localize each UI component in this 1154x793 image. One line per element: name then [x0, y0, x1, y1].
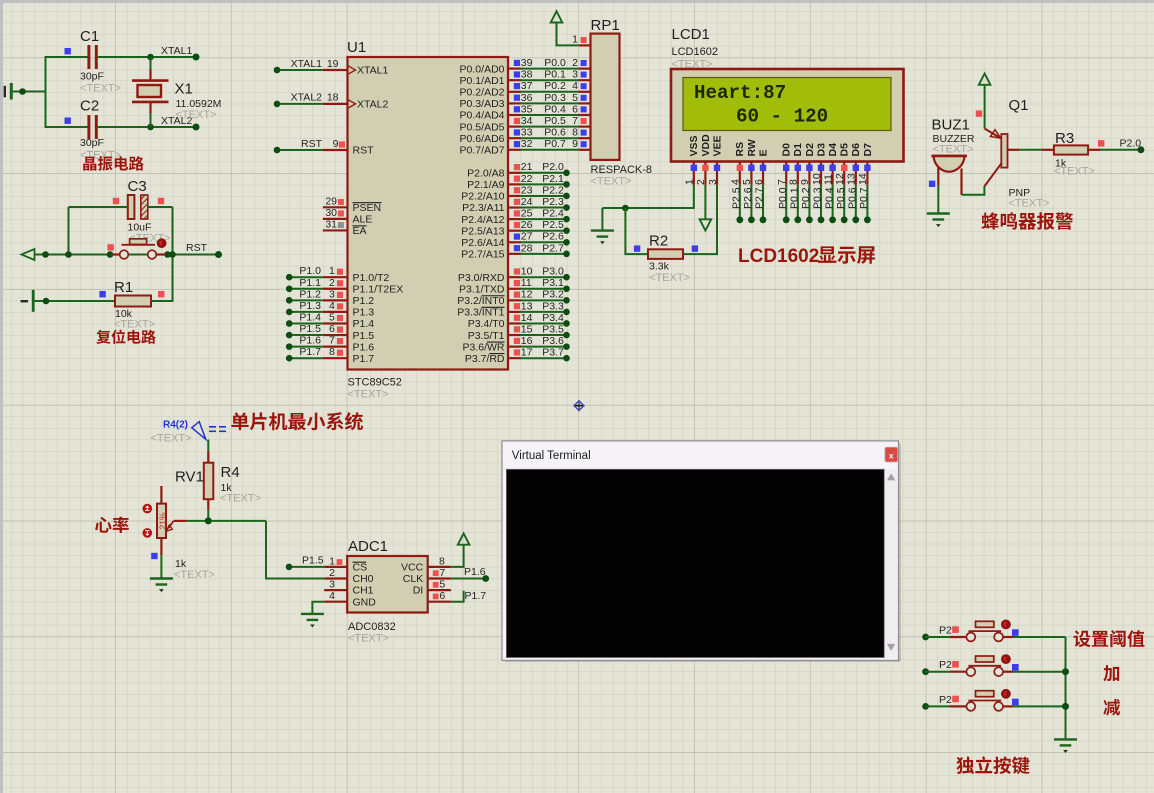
svg-text:D7: D7 — [862, 143, 874, 157]
svg-text:60 - 120: 60 - 120 — [736, 105, 828, 127]
svg-text:P0.5: P0.5 — [835, 187, 847, 209]
pot RV1 interactive down button — [143, 528, 153, 538]
svg-text:10: 10 — [521, 266, 533, 278]
svg-text:R3: R3 — [1055, 130, 1074, 147]
svg-text:P3.3: P3.3 — [542, 300, 564, 312]
state square R1 right (red) — [158, 291, 164, 297]
caption 晶振电路 — [83, 156, 144, 171]
svg-text:P1.0: P1.0 — [299, 265, 321, 277]
pot RV1 body — [160, 486, 162, 504]
U1 pin P0.0/AD0 (39) wire P0.0 to RP1 pin 2 — [460, 57, 591, 75]
svg-text:5: 5 — [572, 92, 578, 104]
svg-text:P3.0/RXD: P3.0/RXD — [458, 272, 505, 284]
svg-text:Virtual Terminal: Virtual Terminal — [512, 450, 591, 462]
svg-text:XTAL2: XTAL2 — [357, 99, 388, 111]
svg-text:4: 4 — [329, 300, 335, 312]
U1 pin P3.3/INT1 (13) wire P3.3 with node — [457, 300, 570, 318]
svg-text:DI: DI — [413, 585, 424, 597]
caption 心率 — [95, 517, 129, 534]
wire vertical C3-left down to RST row — [68, 207, 70, 255]
svg-text:P0.5: P0.5 — [544, 115, 566, 127]
U1 pin P3.6/WR (16) wire P3.6 with node — [462, 335, 569, 353]
svg-text:<TEXT>: <TEXT> — [348, 633, 389, 645]
ground (ADC) — [301, 614, 324, 620]
svg-text:22: 22 — [521, 173, 533, 185]
svg-text:PSEN: PSEN — [353, 202, 382, 214]
U1 pin P2.6/A14 (27) wire P2.6 with node — [461, 231, 570, 249]
wire LCD pin D3 net P0.3 with node — [812, 185, 825, 223]
svg-text:7: 7 — [329, 335, 335, 347]
svg-text:<TEXT>: <TEXT> — [649, 272, 690, 284]
svg-text:P1.7: P1.7 — [299, 346, 321, 358]
svg-text:P0.2/AD2: P0.2/AD2 — [460, 87, 505, 99]
lcd screen — [683, 78, 891, 131]
svg-text:P0.2: P0.2 — [544, 80, 566, 92]
svg-text:13: 13 — [846, 173, 858, 185]
svg-text:P0.6: P0.6 — [544, 127, 566, 139]
node junction RST row b — [65, 251, 72, 258]
virtual terminal close button — [885, 447, 898, 462]
wire LCD VDD to power-down arrow — [704, 185, 706, 220]
node junction RST row d (button right) — [164, 251, 171, 258]
capacitor C2 — [89, 115, 96, 139]
svg-text:5: 5 — [329, 311, 335, 323]
U1 pin P0.3/AD3 (36) wire P0.3 to RP1 pin 5 — [460, 92, 591, 110]
wire LCD pin D2 net P0.2 with node — [800, 185, 813, 223]
svg-text:RV1: RV1 — [175, 469, 204, 486]
U1 pin P2.3/A11 (24) wire P2.3 with node — [462, 196, 570, 214]
svg-text:26: 26 — [521, 219, 533, 231]
svg-text:7: 7 — [572, 115, 578, 127]
svg-text:P0.7/AD7: P0.7/AD7 — [460, 145, 505, 157]
U1 pin P1.2 (3) with wire and node P1.2 — [286, 288, 374, 307]
svg-text:X1: X1 — [175, 81, 193, 98]
node RST terminal — [215, 251, 222, 258]
node junction R1 left — [43, 298, 50, 305]
svg-text:3.3k: 3.3k — [649, 261, 670, 273]
svg-text:32: 32 — [521, 138, 533, 150]
svg-text:37: 37 — [521, 80, 533, 92]
LCD pin D1 (8) stub and label — [788, 143, 805, 185]
svg-text:P3.7: P3.7 — [542, 347, 564, 359]
U1 pin P1.3 (4) with wire and node P1.3 — [286, 300, 374, 319]
ADC pin GND (4) wire to ground — [312, 590, 376, 614]
svg-text:P0.7: P0.7 — [544, 138, 566, 150]
push button (reset) — [111, 253, 120, 255]
ADC pin CH1 (3) stub — [324, 579, 373, 597]
svg-text:RS: RS — [734, 142, 746, 157]
Q1 base wire to R3 — [1008, 149, 1020, 151]
svg-text:P2.7: P2.7 — [754, 187, 766, 209]
svg-text:<TEXT>: <TEXT> — [933, 144, 974, 156]
svg-text:P3.1/TXD: P3.1/TXD — [459, 283, 505, 295]
svg-text:D6: D6 — [850, 143, 862, 157]
svg-text:P3.1: P3.1 — [542, 277, 564, 289]
U1 pin P0.6/AD6 (33) wire P0.6 to RP1 pin 8 — [460, 127, 591, 145]
svg-text:25: 25 — [521, 208, 533, 220]
svg-text:6: 6 — [329, 323, 335, 335]
ADC pin CLK (7) wire with node P1.6 — [403, 566, 489, 585]
svg-text:24: 24 — [521, 196, 533, 208]
svg-text:R2: R2 — [649, 233, 668, 250]
wire C2 to XTAL2 node — [98, 126, 196, 128]
wire LCD VSS to ground rail — [602, 185, 693, 208]
svg-text:P0.1/AD1: P0.1/AD1 — [460, 75, 505, 87]
wire VEE rail to R2 right — [625, 208, 648, 254]
adc ADC1 body — [347, 556, 428, 613]
svg-text:CH1: CH1 — [353, 585, 374, 597]
wire VCC to RP1 pin 1 — [557, 23, 579, 46]
caption 设置阈值 — [1074, 630, 1145, 647]
U1 pin ALE (30) — [323, 207, 373, 226]
svg-text:P2.2/A10: P2.2/A10 — [461, 191, 504, 203]
LCD pin D3 (10) stub and label — [811, 143, 828, 185]
U1 pin P0.5/AD5 (34) wire P0.5 to RP1 pin 7 — [460, 115, 591, 133]
svg-text:XTAL2: XTAL2 — [291, 92, 322, 104]
svg-text:4: 4 — [572, 80, 578, 92]
svg-text:39: 39 — [521, 57, 533, 69]
svg-text:U1: U1 — [347, 39, 366, 56]
svg-text:<TEXT>: <TEXT> — [176, 109, 217, 121]
push button K4 row (net P2.4) — [922, 654, 1065, 676]
wire LCD pin D6 net P0.6 with node — [847, 185, 860, 223]
node junction R4/wiper — [205, 517, 212, 524]
svg-text:P2.6/A14: P2.6/A14 — [461, 237, 504, 249]
U1 pin P1.1 (2) with wire and node P1.1 — [286, 277, 403, 296]
pot RV1 wiper arrow — [168, 521, 174, 529]
svg-text:R1: R1 — [114, 279, 133, 296]
state square button left (red) — [107, 244, 113, 250]
svg-text:15: 15 — [521, 323, 533, 335]
wire LCD pin D0 net P0.0 with node — [777, 185, 790, 223]
svg-text:P1.5: P1.5 — [353, 330, 375, 342]
svg-text:VEE: VEE — [711, 135, 723, 156]
voltage probe R4(2) — [192, 422, 206, 440]
svg-text:P2.1: P2.1 — [542, 173, 564, 185]
state square RP1 pin1 (red) — [581, 37, 587, 43]
LCD pin D0 (7) stub and label — [776, 143, 793, 185]
svg-text:P3.4/T0: P3.4/T0 — [468, 318, 505, 330]
svg-text:LCD1: LCD1 — [672, 26, 710, 43]
svg-text:RESPACK-8: RESPACK-8 — [591, 164, 653, 176]
wire R1 right to vertical — [151, 300, 174, 302]
node junction VSS rail — [622, 205, 629, 212]
U1 pin P1.7 (8) with wire and node P1.7 — [286, 346, 374, 365]
wire RST row main — [35, 254, 219, 256]
svg-text:2: 2 — [695, 179, 707, 185]
wire R2 right to VEE column — [683, 185, 717, 254]
state square Q1 emitter (red) — [976, 110, 982, 116]
svg-text:P1.5: P1.5 — [302, 554, 324, 566]
svg-text:VDD: VDD — [700, 134, 712, 157]
wire C3 left to corner — [69, 206, 128, 208]
state square R2 left (blue) — [634, 245, 640, 251]
svg-text:P2.4: P2.4 — [542, 208, 564, 220]
svg-text:8: 8 — [329, 346, 335, 358]
node junction button row 2 — [1062, 668, 1069, 675]
U1 pin P1.5 (6) with wire and node P1.5 — [286, 323, 374, 342]
svg-text:P3.6: P3.6 — [542, 335, 564, 347]
state square buzzer left (blue) — [929, 181, 935, 187]
power symbol (VCC arrow) above RP1 — [551, 11, 563, 22]
svg-text:1: 1 — [572, 34, 578, 46]
svg-text:P2.6: P2.6 — [742, 187, 754, 209]
svg-text:P3.0: P3.0 — [542, 266, 564, 278]
svg-text:6: 6 — [439, 590, 445, 602]
svg-text:<TEXT>: <TEXT> — [114, 319, 155, 331]
LCD pin VSS (1) stub and label — [684, 135, 701, 185]
U1 pin P2.2/A10 (23) wire P2.2 with node — [461, 184, 570, 202]
ground (buttons) — [1054, 739, 1077, 745]
svg-text:ADC0832: ADC0832 — [348, 621, 396, 633]
buzzer left pin to ground — [937, 168, 939, 186]
U1 pin PSEN (29) — [323, 196, 382, 215]
U1 pin P2.5/A13 (26) wire P2.5 with node — [461, 219, 570, 237]
resistor R1 — [115, 296, 151, 307]
svg-text:19: 19 — [327, 58, 339, 70]
U1 pin XTAL1 (19) with wire and node — [274, 58, 389, 77]
svg-text:P0.3: P0.3 — [812, 187, 824, 209]
node junction RST row a — [42, 251, 49, 258]
respack RP1 body — [591, 34, 620, 160]
svg-text:P2.7/A15: P2.7/A15 — [461, 249, 504, 261]
application window top edge — [0, 0, 1154, 3]
svg-text:RW: RW — [746, 139, 758, 156]
wire VCC to Q1 emitter — [984, 85, 986, 129]
input terminal (left edge, XTAL net) — [4, 86, 6, 98]
svg-text:34: 34 — [521, 115, 533, 127]
wire terminal to R1 — [35, 300, 115, 302]
svg-text:P2.6: P2.6 — [542, 231, 564, 243]
svg-text:D4: D4 — [827, 143, 839, 157]
svg-text:P2.0: P2.0 — [542, 161, 564, 173]
virtual terminal screen (black) — [506, 469, 884, 657]
svg-text:CS: CS — [353, 562, 368, 574]
node XTAL2 terminal — [193, 124, 200, 131]
wire LCD pin RW net P2.6 with node — [742, 185, 755, 223]
svg-text:GND: GND — [353, 596, 377, 608]
svg-text:D1: D1 — [792, 143, 804, 157]
svg-text:38: 38 — [521, 69, 533, 81]
ground terminal (left edge, R1 row) — [21, 300, 29, 302]
svg-text:P2: P2 — [939, 625, 952, 637]
svg-text:P2.0/A8: P2.0/A8 — [467, 168, 505, 180]
svg-text:P3.4: P3.4 — [542, 312, 564, 324]
wire LCD pin D4 net P0.4 with node — [823, 185, 836, 223]
svg-text:P1.2: P1.2 — [299, 288, 321, 300]
LCD pin VDD (2) stub and label — [695, 134, 712, 185]
push button K5 row (net P2.5) — [922, 689, 1065, 711]
svg-text:27: 27 — [521, 231, 533, 243]
svg-text:P2.1/A9: P2.1/A9 — [467, 179, 505, 191]
svg-text:6: 6 — [753, 179, 765, 185]
svg-text:C2: C2 — [80, 98, 99, 115]
svg-text:RST: RST — [186, 242, 208, 254]
node junction button row 3 — [1062, 703, 1069, 710]
wire R4 bottom to junction — [207, 510, 209, 521]
pot RV1 bottom to ground — [160, 555, 162, 578]
svg-text:36: 36 — [521, 92, 533, 104]
svg-text:P0.0/AD0: P0.0/AD0 — [460, 63, 505, 75]
svg-text:7: 7 — [776, 179, 788, 185]
ADC pin CH0 (2) — [324, 567, 373, 585]
svg-text:11: 11 — [822, 174, 834, 185]
svg-text:P1.6: P1.6 — [464, 566, 486, 578]
resistor R2 — [648, 249, 683, 259]
svg-text:17: 17 — [521, 347, 533, 359]
U1 pin RST (9) with wire and node — [274, 138, 374, 157]
pot RV1 interactive up button — [143, 504, 153, 514]
svg-text:23: 23 — [521, 184, 533, 196]
svg-text:BUZ1: BUZ1 — [932, 117, 970, 134]
svg-text:D0: D0 — [781, 143, 793, 157]
svg-text:P1.4: P1.4 — [353, 318, 375, 330]
caption 蜂鸣器报警 — [982, 212, 1074, 229]
svg-text:<TEXT>: <TEXT> — [174, 569, 215, 581]
svg-text:33: 33 — [521, 127, 533, 139]
svg-text:12: 12 — [521, 289, 533, 301]
svg-text:D3: D3 — [815, 143, 827, 157]
svg-text:3: 3 — [329, 579, 335, 591]
LCD pin RS (4) stub and label — [730, 142, 747, 185]
svg-text:P0.3: P0.3 — [544, 92, 566, 104]
svg-text:RST: RST — [301, 138, 323, 150]
node junction RST row c (button left) — [107, 251, 114, 258]
svg-text:P1.7: P1.7 — [353, 353, 375, 365]
svg-text:EA: EA — [353, 225, 367, 237]
svg-text:P0.4: P0.4 — [544, 103, 566, 115]
U1 pin P3.7/RD (17) wire P3.7 with node — [465, 347, 570, 365]
svg-text:<TEXT>: <TEXT> — [151, 433, 192, 445]
svg-text:P3.2/INT0: P3.2/INT0 — [457, 295, 504, 307]
LCD pin D7 (14) stub and label — [857, 143, 874, 185]
origin marker (sheet centre) — [574, 401, 585, 411]
svg-text:8: 8 — [439, 555, 445, 567]
svg-text:P0.6: P0.6 — [847, 187, 859, 209]
power symbol (VCC arrow) above Q1 — [979, 74, 991, 85]
svg-text:P2.4/A12: P2.4/A12 — [461, 214, 504, 226]
svg-text:C3: C3 — [128, 178, 147, 195]
wire LCD pin RS net P2.5 with node — [731, 185, 744, 223]
transistor Q1 (PNP) body — [1001, 134, 1007, 168]
svg-text:D2: D2 — [804, 143, 816, 157]
svg-text:XTAL1: XTAL1 — [161, 45, 192, 57]
svg-text:P0.7: P0.7 — [858, 187, 870, 209]
svg-text:30: 30 — [325, 207, 337, 219]
ADC pin VCC (8) wire to power arrow — [401, 545, 464, 574]
U1 pin P2.4/A12 (25) wire P2.4 with node — [461, 208, 570, 226]
wire vertical C3-right down through RST row to R1 row — [172, 207, 174, 301]
svg-text:P2.5: P2.5 — [542, 219, 564, 231]
svg-text:3: 3 — [707, 179, 719, 185]
U1 pin P0.4/AD4 (35) wire P0.4 to RP1 pin 6 — [460, 103, 591, 121]
svg-text:P0.1: P0.1 — [544, 69, 566, 81]
U1 pin EA (31) — [323, 219, 367, 238]
wire C3 right to corner — [148, 206, 173, 208]
U1 pin P3.5/T1 (15) wire P3.5 with node — [468, 323, 570, 341]
svg-text:P1.2: P1.2 — [353, 295, 375, 307]
capacitor C3 (electrolytic) — [128, 195, 135, 219]
capacitor C1 — [89, 45, 96, 69]
svg-text:LCD1602: LCD1602 — [738, 246, 819, 267]
svg-text:9: 9 — [572, 138, 578, 150]
svg-text:2: 2 — [329, 277, 335, 289]
RP1 pin 1 stub — [579, 44, 591, 46]
svg-text:P2.5: P2.5 — [731, 187, 743, 209]
svg-text:4: 4 — [730, 179, 742, 185]
svg-text:P2: P2 — [939, 659, 952, 671]
svg-text:1: 1 — [329, 555, 335, 567]
U1 pin XTAL2 (18) with wire and node — [274, 92, 389, 111]
svg-text:4: 4 — [329, 590, 335, 602]
svg-text:28: 28 — [521, 242, 533, 254]
svg-text:VCC: VCC — [401, 562, 424, 574]
node junction on input wire — [19, 88, 26, 95]
LCD pin VEE (3) stub and label — [707, 135, 724, 185]
ADC pin DO (6) wire net P1.7 — [428, 590, 487, 602]
svg-text:P1.7: P1.7 — [465, 590, 487, 602]
svg-text:P1.3: P1.3 — [353, 307, 375, 319]
svg-text:P0.2: P0.2 — [800, 187, 812, 209]
U1 pin P3.4/T0 (14) wire P3.4 with node — [468, 312, 570, 330]
U1 pin P2.7/A15 (28) wire P2.7 with node — [461, 242, 570, 260]
svg-text:E: E — [757, 149, 769, 156]
svg-text:XTAL1: XTAL1 — [357, 65, 388, 77]
node P2.0 terminal — [1137, 146, 1144, 153]
svg-text:29: 29 — [325, 196, 337, 208]
U1 pin P3.2/INT0 (12) wire P3.2 with node — [457, 289, 570, 307]
svg-text:P2.7: P2.7 — [542, 242, 564, 254]
U1 pin P1.6 (7) with wire and node P1.6 — [286, 335, 374, 354]
wire probe to R4 top — [207, 440, 209, 452]
svg-text:14: 14 — [857, 173, 869, 185]
svg-text:2: 2 — [572, 57, 578, 69]
bus entry arrow (left, RST row) — [22, 249, 35, 260]
ADC pin DI (5) stub — [413, 579, 451, 597]
svg-text:<TEXT>: <TEXT> — [348, 389, 389, 401]
U1 pin P0.7/AD7 (32) wire P0.7 to RP1 pin 9 — [460, 138, 591, 156]
svg-text:P0.3/AD3: P0.3/AD3 — [460, 98, 505, 110]
U1 pin P0.2/AD2 (37) wire P0.2 to RP1 pin 4 — [460, 80, 591, 98]
svg-text:RST: RST — [353, 145, 375, 157]
svg-text:21: 21 — [521, 161, 533, 173]
svg-text:5: 5 — [439, 579, 445, 591]
svg-text:18: 18 — [327, 92, 339, 104]
state square C3 left (red) — [113, 198, 119, 204]
svg-text:13: 13 — [521, 300, 533, 312]
LCD pin D2 (9) stub and label — [799, 143, 816, 185]
svg-text:12: 12 — [834, 173, 846, 185]
virtual terminal scrollbar — [885, 469, 897, 657]
svg-text:R4: R4 — [221, 464, 240, 481]
wire vertical split to C1 and C2 rows — [45, 56, 47, 128]
svg-text:<TEXT>: <TEXT> — [1009, 198, 1050, 210]
node XTAL2 junction — [147, 124, 154, 131]
svg-text:P1.4: P1.4 — [299, 311, 321, 323]
power symbol (VCC arrow) at ADC — [458, 533, 470, 544]
wire LCD pin D5 net P0.5 with node — [835, 185, 848, 223]
svg-text:P3.6/WR: P3.6/WR — [462, 341, 504, 353]
ground (LCD VSS) — [591, 231, 614, 237]
svg-text:1: 1 — [329, 265, 335, 277]
wire ground drop — [601, 208, 603, 231]
ground (buzzer) — [927, 214, 950, 220]
svg-text:P3.5: P3.5 — [542, 323, 564, 335]
state square C1 (blue) — [65, 48, 71, 54]
svg-text:x: x — [889, 450, 894, 460]
svg-text:<TEXT>: <TEXT> — [80, 83, 121, 95]
svg-text:P0.1: P0.1 — [789, 187, 801, 209]
